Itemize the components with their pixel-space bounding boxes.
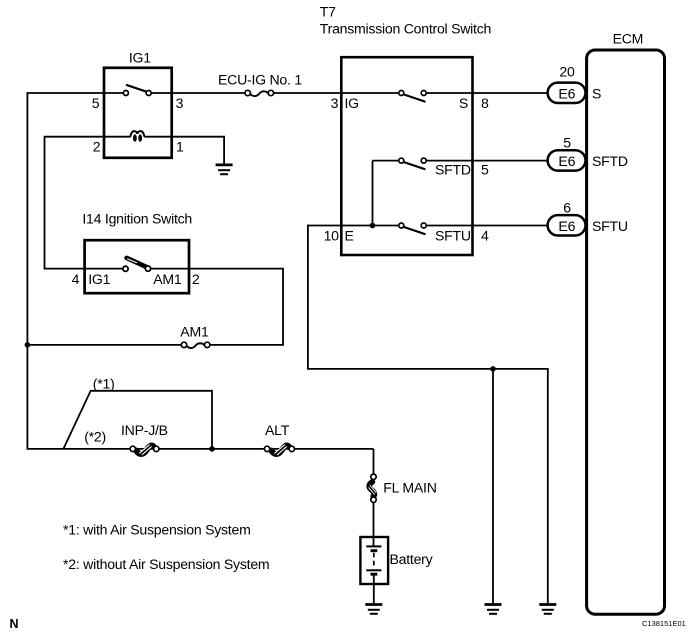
wire left rail from IG1 pin5 down to bottom row [27,93,373,449]
svg-text:(*2): (*2) [84,428,106,444]
svg-text:SFTD: SFTD [435,162,471,178]
svg-text:E: E [345,228,354,244]
svg-text:E6: E6 [558,85,575,101]
svg-text:IG1: IG1 [129,50,151,66]
svg-text:S: S [592,86,601,102]
svg-text:(*1): (*1) [93,376,115,392]
battery cell symbol [366,546,381,574]
svg-text:5: 5 [563,134,571,150]
junction dot common E [370,223,376,229]
ECM box [587,50,665,614]
relay IG1 coil [104,131,172,142]
svg-text:C138151E01: C138151E01 [642,619,686,628]
T7 box Transmission Control Switch [341,57,472,255]
svg-text:5: 5 [481,162,489,178]
wire down to FL MAIN [373,449,375,474]
svg-text:2: 2 [93,139,101,155]
svg-text:3: 3 [176,95,184,111]
svg-text:AM1: AM1 [153,271,182,287]
connector E6 S [548,83,586,103]
connector E6 SFTU [548,215,586,235]
T7 switch S row [341,91,472,102]
junction dot left rail AM1 [25,342,31,348]
T7 switch SFTU row [341,223,472,234]
ground (IG1 pin1) [216,165,233,174]
T7 switch SFTD row [373,158,473,169]
svg-text:Transmission Control Switch: Transmission Control Switch [320,21,491,37]
junction dot ground branch [490,366,496,372]
fuse AM1 [181,342,210,348]
svg-text:8: 8 [481,95,489,111]
svg-text:SFTU: SFTU [435,228,471,244]
svg-text:T7: T7 [320,4,336,20]
wire I14 pin2 to AM1 fuse row [189,269,283,345]
svg-text:N: N [10,617,19,631]
svg-text:SFTU: SFTU [592,218,628,234]
svg-text:4: 4 [481,228,489,244]
wire FL MAIN to battery [373,502,375,547]
wire battery to ground [373,576,375,604]
fusible link FL MAIN [369,474,377,502]
wire T7 S to E6 [473,92,549,94]
svg-text:10: 10 [324,228,340,244]
wire *1 branch [63,391,212,449]
ground (left ECM ground) [485,605,502,614]
wire T7 SFTU to E6 [473,225,549,227]
svg-text:IG: IG [345,95,359,111]
fusible link INP-J/B [130,445,159,455]
svg-text:ALT: ALT [265,422,290,438]
svg-text:4: 4 [72,271,80,287]
wire IG1 pin3 to fuse ECU-IG [172,92,245,94]
switch I14 contacts [84,258,189,272]
svg-text:IG1: IG1 [88,271,110,287]
svg-text:ECU-IG No. 1: ECU-IG No. 1 [218,71,302,87]
svg-text:AM1: AM1 [180,324,209,340]
svg-text:3: 3 [331,95,339,111]
svg-text:INP-J/B: INP-J/B [121,422,168,438]
svg-text:Battery: Battery [390,551,434,567]
wire ground branch [492,369,494,603]
fusible link ALT [264,445,294,455]
wire T7 SFTD to E6 [473,160,549,162]
wire IG1 pin1 to ground [172,137,224,164]
wire AM1 row left [27,344,181,346]
connector E6 SFTD [548,150,586,170]
svg-text:5: 5 [92,95,100,111]
fuse ECU-IG No. 1 [245,90,274,96]
svg-text:FL MAIN: FL MAIN [383,480,436,496]
wire fuse ECU-IG to T7 pin3 [273,92,341,94]
relay IG1 switch contacts [104,85,172,96]
ground (battery) [365,605,382,614]
svg-text:*2: without Air Suspension Sys: *2: without Air Suspension System [63,556,269,572]
wire IG1 pin2 to I14 pin4 [45,137,105,269]
relay IG1 box [104,68,172,158]
svg-text:ECM: ECM [613,31,644,47]
svg-text:SFTD: SFTD [592,153,628,169]
wire E ground path [308,226,548,604]
ground (right ECM ground) [539,605,556,614]
switch I14 box [85,240,189,293]
wire SFTD to SFTU common [372,161,374,226]
battery box [360,537,388,584]
svg-text:E6: E6 [558,218,575,234]
svg-text:E6: E6 [558,153,575,169]
svg-text:2: 2 [192,271,200,287]
svg-text:6: 6 [563,199,571,215]
svg-text:*1: with Air Suspension System: *1: with Air Suspension System [63,522,251,538]
junction dot INP-J/B out [209,446,215,452]
svg-text:20: 20 [559,63,575,79]
svg-text:I14 Ignition Switch: I14 Ignition Switch [82,210,192,226]
svg-text:1: 1 [176,139,184,155]
svg-text:S: S [459,95,468,111]
